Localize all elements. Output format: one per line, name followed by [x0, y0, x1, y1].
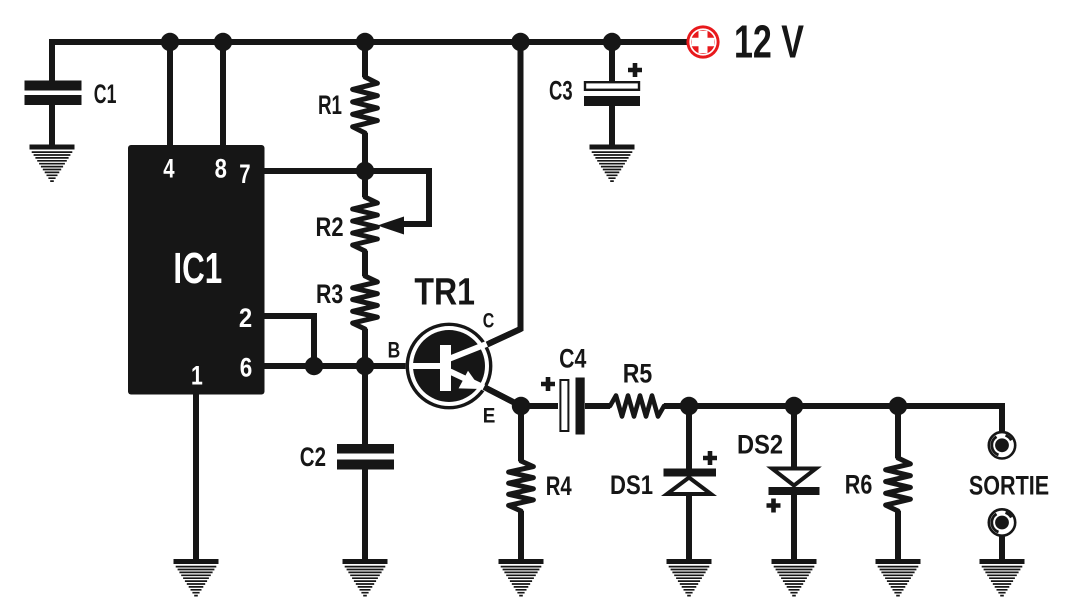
- wire output rail R5 to SORTIE: [664, 406, 1002, 432]
- wire R6 bottom lead: [895, 511, 901, 560]
- DS1 polarity plus: [703, 451, 717, 465]
- svg-text:C2: C2: [300, 442, 326, 472]
- wire R1 top lead: [362, 42, 368, 77]
- R2 wiper arrow: [378, 217, 405, 235]
- wire emitter node down to R4: [518, 406, 524, 461]
- svg-text:12 V: 12 V: [734, 16, 804, 68]
- svg-text:1: 1: [191, 361, 203, 391]
- svg-text:IC1: IC1: [173, 244, 222, 293]
- capacitor C1: [25, 81, 82, 106]
- svg-text:DS1: DS1: [610, 470, 653, 500]
- wire R3 bottom lead to node: [362, 329, 368, 366]
- ground C2: [343, 559, 388, 596]
- junction node rail/C3: [603, 33, 621, 51]
- diode DS2: [769, 469, 820, 496]
- svg-text:R3: R3: [316, 279, 343, 309]
- potentiometer R2: [353, 197, 378, 251]
- svg-text:4: 4: [163, 154, 174, 184]
- wire R1 bottom lead to node: [362, 133, 368, 171]
- wire emitter node to C4: [521, 403, 558, 409]
- wire C1 bottom lead: [49, 104, 55, 147]
- svg-text:R1: R1: [318, 90, 342, 120]
- junction node R3/C2/base: [356, 357, 374, 375]
- wire C3 top lead: [609, 42, 615, 82]
- diode DS1: [664, 469, 717, 495]
- wire DS1 bottom lead: [686, 494, 692, 560]
- junction node rail/IC pin8: [214, 33, 232, 51]
- wire C3 bottom lead: [609, 105, 615, 147]
- wire IC1 pin 2 loop: [264, 316, 314, 366]
- junction node R5/DS1: [680, 397, 698, 415]
- svg-text:C3: C3: [549, 76, 573, 106]
- wire DS2 top lead: [791, 406, 797, 468]
- wire R4 bottom lead: [518, 511, 524, 560]
- svg-text:DS2: DS2: [737, 430, 783, 460]
- wire IC1 pin 4 supply: [167, 42, 173, 146]
- svg-text:TR1: TR1: [414, 271, 475, 313]
- resistor R4: [509, 461, 534, 511]
- wire R2 top lead: [362, 171, 368, 197]
- SORTIE lower jack: [989, 509, 1015, 535]
- svg-text:R4: R4: [546, 471, 572, 501]
- svg-text:C: C: [483, 310, 495, 333]
- capacitor C2: [337, 444, 394, 470]
- wire C4 to R5: [585, 403, 610, 409]
- transistor TR1: [406, 323, 493, 410]
- wire TR1 emitter to node: [484, 387, 521, 406]
- svg-text:C1: C1: [94, 79, 117, 109]
- TR1 collector outer lead: [487, 329, 521, 345]
- svg-text:6: 6: [240, 353, 253, 383]
- wire IC1 pin 6 to TR1 base: [264, 363, 407, 369]
- resistor R6: [886, 458, 911, 511]
- junction node DS2: [785, 397, 803, 415]
- junction node R6: [889, 397, 907, 415]
- junction node R1/R2/pin7: [356, 162, 374, 180]
- ground R6: [876, 559, 921, 596]
- svg-text:R6: R6: [845, 470, 873, 500]
- TR1 emitter outer lead: [484, 387, 521, 406]
- ground C1: [30, 145, 75, 182]
- ground DS2: [772, 559, 817, 596]
- ground R4: [499, 559, 544, 596]
- svg-text:SORTIE: SORTIE: [969, 471, 1049, 501]
- ground DS1: [667, 559, 712, 596]
- wire C1 top lead: [49, 39, 55, 82]
- op-amp IC1: [128, 145, 265, 395]
- C4 polarity plus: [541, 377, 555, 391]
- capacitor C4 (polarized): [560, 378, 584, 435]
- resistor R5: [610, 396, 664, 417]
- wire R6 top lead: [895, 406, 901, 458]
- wire IC1 pin 7 to R1/R2 node: [264, 168, 365, 174]
- C3 polarity plus: [628, 63, 642, 77]
- junction node rail/TR1 collector: [511, 33, 529, 51]
- capacitor C3 (polarized): [584, 82, 640, 106]
- SORTIE upper jack: [989, 432, 1015, 458]
- svg-text:R5: R5: [623, 359, 653, 389]
- junction node pin2/pin6: [305, 357, 323, 375]
- svg-text:7: 7: [239, 159, 250, 189]
- wire R2 to R3 lead: [362, 251, 368, 276]
- wire DS1 top lead: [686, 406, 692, 469]
- ground SORTIE: [980, 559, 1025, 596]
- wire R2 wiper loop: [365, 171, 429, 224]
- resistor R1: [353, 77, 378, 133]
- resistor R3: [353, 276, 378, 329]
- svg-text:C4: C4: [559, 344, 586, 374]
- wire SORTIE lower jack to ground: [999, 535, 1005, 560]
- junction node emitter/C4/R4: [512, 397, 530, 415]
- wire C2 bottom lead: [362, 469, 368, 560]
- svg-text:R2: R2: [316, 212, 344, 242]
- junction node rail/R1: [356, 33, 374, 51]
- svg-text:2: 2: [239, 303, 252, 333]
- wire IC1 pin 8 supply: [220, 42, 226, 146]
- +12V supply terminal: [686, 25, 719, 58]
- wire IC1 pin 1 to ground: [193, 394, 199, 560]
- wire top +12V rail: [49, 39, 687, 45]
- svg-text:E: E: [483, 405, 496, 428]
- svg-text:8: 8: [215, 154, 227, 184]
- svg-text:B: B: [388, 337, 401, 362]
- wire C2 top lead: [362, 366, 368, 445]
- wire TR1 collector to rail: [487, 42, 521, 345]
- ground IC1 pin1: [174, 559, 219, 596]
- junction node rail/C1-IC pin4: [161, 33, 179, 51]
- ground C3: [590, 145, 635, 182]
- wire DS2 bottom lead: [791, 494, 797, 560]
- DS2 polarity plus: [767, 499, 781, 513]
